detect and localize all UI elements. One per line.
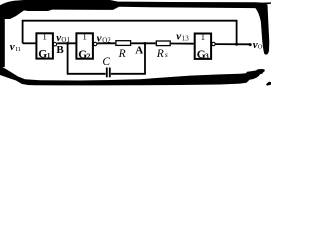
svg-text:13: 13 [182,35,190,43]
svg-text:B: B [56,44,64,56]
svg-text:3: 3 [205,52,209,61]
svg-text:R: R [156,48,164,60]
svg-text:R: R [118,48,126,60]
svg-text:s: s [165,50,168,59]
svg-text:C: C [102,56,110,68]
svg-text:O1: O1 [61,36,70,44]
svg-text:1: 1 [82,32,87,42]
svg-text:O: O [258,44,263,51]
svg-text:I1: I1 [16,46,21,53]
svg-text:v: v [97,33,102,45]
svg-text:1: 1 [42,32,47,42]
svg-text:1: 1 [47,51,51,60]
svg-text:1: 1 [201,32,206,42]
svg-text:O2: O2 [102,36,111,44]
svg-text:2: 2 [87,51,91,60]
svg-text:v: v [176,31,181,43]
svg-text:A: A [135,45,143,57]
svg-text:v: v [10,41,15,53]
